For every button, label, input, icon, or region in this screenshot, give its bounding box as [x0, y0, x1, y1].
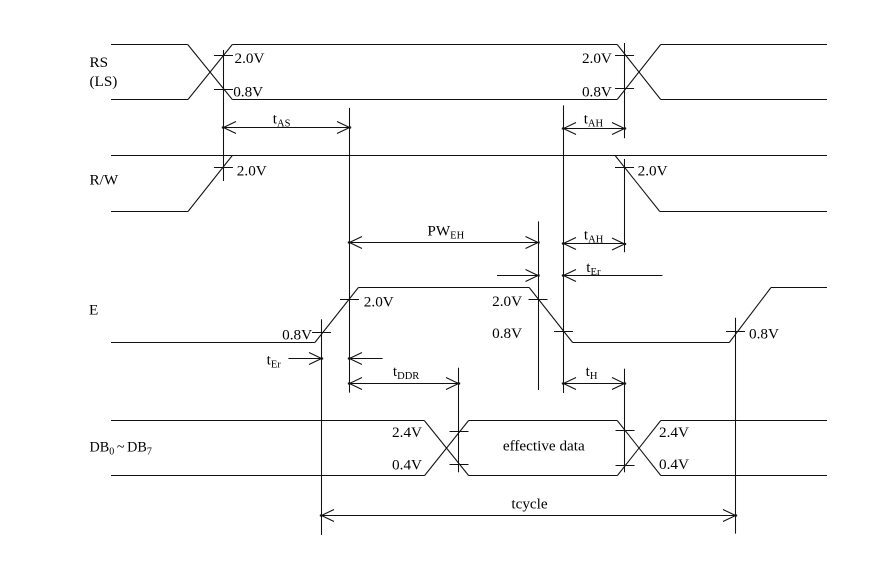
dimension PWEH left arrowhead: [348, 237, 362, 249]
RS 0.8V tick T1: [214, 89, 233, 91]
E 2.0V tick fall: [529, 299, 548, 301]
dimension tH right arrowhead: [612, 378, 626, 390]
measurement vertical V3a at RS T2: [624, 43, 626, 138]
DB top rail right: [661, 420, 827, 422]
dimension tEr top right-pointing arrowhead: [526, 270, 540, 282]
DB crossover X1 falling: [424, 421, 468, 476]
DB bottom rail right: [661, 475, 827, 477]
R/W low rail left: [111, 211, 188, 213]
dimension tEr top left shaft: [497, 275, 539, 277]
svg-text:tEr: tEr: [267, 352, 282, 371]
measurement vertical V9 at E rise2 0.8V: [735, 318, 737, 534]
R/W low rail right: [660, 211, 827, 213]
dimension tH left arrowhead: [562, 378, 576, 390]
svg-text:2.0V: 2.0V: [237, 163, 267, 180]
dimension tDDR shaft: [350, 383, 459, 385]
dimension tAS left arrowhead: [222, 122, 236, 134]
dimension tAH2 right arrowhead: [612, 238, 626, 250]
svg-text:DB0~DB7: DB0~DB7: [90, 440, 152, 458]
dimension tcycle right arrowhead: [723, 510, 737, 522]
svg-text:tAH: tAH: [584, 110, 604, 129]
RS falling edge T1: [188, 45, 233, 100]
measurement vertical V8 at DB valid end: [624, 369, 626, 473]
svg-text:0.8V: 0.8V: [492, 325, 522, 342]
dimension PWEH shaft: [350, 242, 539, 244]
dimension tEr top left-pointing arrowhead: [562, 270, 576, 282]
E falling edge: [529, 288, 572, 343]
E 0.8V tick rise2: [726, 331, 745, 333]
svg-text:2.0V: 2.0V: [492, 293, 522, 310]
dimension tAH1 shaft: [564, 128, 625, 130]
RS rising edge T1: [188, 45, 232, 100]
E rising edge 1: [315, 288, 359, 343]
DB bottom rail left: [111, 475, 425, 477]
R/W rising edge: [188, 156, 232, 212]
svg-text:tH: tH: [586, 363, 598, 382]
svg-text:tcycle: tcycle: [511, 495, 548, 512]
measurement vertical V7 at DB valid start: [458, 368, 460, 473]
dimension tEr bottom left-pointing arrowhead: [348, 353, 362, 365]
svg-text:0.4V: 0.4V: [392, 457, 422, 474]
svg-text:2.0V: 2.0V: [364, 294, 394, 311]
DB X1 2.4V tick: [450, 431, 469, 433]
dimension PWEH right arrowhead: [526, 237, 540, 249]
dimension tAS right arrowhead: [337, 122, 351, 134]
svg-text:2.0V: 2.0V: [638, 163, 668, 180]
measurement vertical V2 at E rise 0.8V: [321, 319, 323, 535]
svg-text:tEr: tEr: [586, 259, 601, 278]
svg-text:2.0V: 2.0V: [235, 50, 265, 67]
DB X2 0.4V tick: [616, 465, 635, 467]
E high rail: [358, 287, 529, 289]
svg-text:(LS): (LS): [90, 73, 118, 90]
svg-text:0.8V: 0.8V: [233, 83, 263, 100]
R/W 2.0V tick T2: [615, 167, 634, 169]
dimension tEr bottom right-pointing arrowhead: [309, 353, 323, 365]
RS high rail left: [111, 44, 188, 46]
RS 2.0V tick T2: [615, 55, 634, 57]
svg-text:PWEH: PWEH: [427, 223, 464, 242]
RS 0.8V tick T2: [615, 88, 634, 90]
DB X2 2.4V tick: [616, 430, 635, 432]
RS falling edge T2: [617, 45, 661, 100]
RS low rail mid: [232, 99, 617, 101]
dimension tAH1 left arrowhead: [562, 123, 576, 135]
svg-text:0.8V: 0.8V: [282, 326, 312, 343]
E high rail right: [771, 287, 827, 289]
RS 2.0V tick T1: [214, 55, 233, 57]
RS low rail left: [111, 99, 188, 101]
R/W 2.0V tick T1: [214, 167, 233, 169]
dimension tDDR right arrowhead: [446, 378, 460, 390]
E 0.8V tick fall: [554, 331, 573, 333]
dimension tEr bottom right shaft: [350, 358, 383, 360]
dimension tEr bottom left shaft: [288, 358, 321, 360]
measurement vertical V4 at E fall 0.8V: [563, 105, 565, 393]
E low rail mid: [573, 342, 730, 344]
DB bubble bottom rail: [469, 475, 618, 477]
svg-text:effective data: effective data: [503, 437, 585, 454]
dimension tAS shaft: [224, 127, 350, 129]
dimension tAH1 right arrowhead: [612, 123, 626, 135]
E 0.8V tick rise1: [312, 332, 331, 334]
DB X1 0.4V tick: [450, 464, 469, 466]
svg-text:RS: RS: [90, 54, 109, 71]
DB top rail left: [111, 420, 424, 422]
RS rising edge T2: [617, 45, 661, 100]
svg-text:0.8V: 0.8V: [582, 83, 612, 100]
dimension tcycle shaft: [322, 515, 736, 517]
measurement vertical V3b at RW T2: [624, 159, 626, 252]
measurement vertical V5 at E fall 2.0V: [538, 221, 540, 390]
R/W falling edge: [615, 156, 660, 212]
svg-text:0.8V: 0.8V: [749, 325, 779, 342]
RS low rail right: [661, 99, 827, 101]
svg-text:2.0V: 2.0V: [582, 50, 612, 67]
svg-text:R/W: R/W: [90, 171, 119, 188]
measurement vertical V1 at RS/RW change: [223, 50, 225, 181]
E 2.0V tick rise1: [340, 299, 359, 301]
DB bubble top rail: [469, 420, 618, 422]
svg-text:tDDR: tDDR: [393, 363, 419, 382]
svg-text:0.4V: 0.4V: [659, 456, 689, 473]
R/W top rail: [111, 155, 827, 157]
svg-text:2.4V: 2.4V: [392, 424, 422, 441]
svg-text:tAH: tAH: [584, 226, 604, 245]
RS high rail right: [661, 44, 827, 46]
dimension tH shaft: [564, 383, 625, 385]
dimension tDDR left arrowhead: [348, 378, 362, 390]
RS high rail mid: [232, 44, 617, 46]
DB crossover X2 rising: [617, 421, 660, 476]
dimension tcycle left arrowhead: [320, 510, 334, 522]
dimension tAH2 shaft: [564, 243, 625, 245]
svg-text:tAS: tAS: [273, 110, 291, 129]
DB crossover X1 rising: [425, 421, 469, 476]
E rising edge 2: [729, 288, 771, 343]
dimension tEr top right shaft: [564, 275, 663, 277]
svg-text:E: E: [89, 302, 98, 319]
dimension tAH2 left arrowhead: [562, 238, 576, 250]
DB crossover X2 falling: [617, 421, 661, 476]
svg-text:2.4V: 2.4V: [659, 424, 689, 441]
E low rail left: [111, 342, 315, 344]
measurement vertical V6 at E rise 2.0V: [349, 108, 351, 393]
